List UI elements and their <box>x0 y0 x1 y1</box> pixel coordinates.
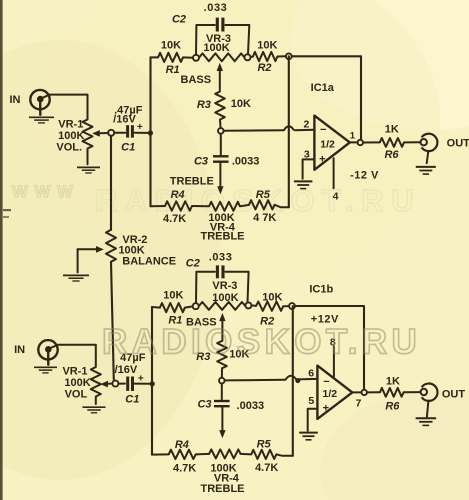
svg-text:TREBLE: TREBLE <box>201 483 245 495</box>
svg-text:R3: R3 <box>197 99 211 111</box>
svg-text:BASS: BASS <box>181 74 212 86</box>
svg-text:/16V: /16V <box>113 113 136 125</box>
svg-text:C3: C3 <box>194 156 208 168</box>
svg-text:R1: R1 <box>166 64 180 76</box>
svg-text:−: − <box>320 124 326 136</box>
svg-text:RADIOSKOT.RU: RADIOSKOT.RU <box>102 323 421 362</box>
svg-text:10K: 10K <box>163 290 183 302</box>
svg-text:VR-1: VR-1 <box>62 366 87 378</box>
svg-text:VOL.: VOL. <box>56 141 82 153</box>
svg-text:−: − <box>323 376 329 388</box>
svg-text:IN: IN <box>10 94 21 106</box>
svg-text:4.7K: 4.7K <box>173 463 196 475</box>
svg-text:100K: 100K <box>58 130 84 142</box>
svg-text:C1: C1 <box>121 141 135 153</box>
svg-text:.033: .033 <box>209 251 233 263</box>
svg-text:1: 1 <box>350 131 356 142</box>
svg-text:WWW: WWW <box>12 183 80 201</box>
svg-text:OUT: OUT <box>442 389 466 401</box>
svg-text:BALANCE: BALANCE <box>122 256 176 268</box>
svg-text:.0033: .0033 <box>232 155 260 167</box>
svg-text:1/2: 1/2 <box>320 138 335 150</box>
svg-text:1/2: 1/2 <box>322 388 337 400</box>
svg-text:+: + <box>323 402 329 414</box>
svg-text:IN: IN <box>14 344 25 356</box>
svg-text:VR-1: VR-1 <box>58 119 83 131</box>
svg-text:VR-3: VR-3 <box>212 280 237 292</box>
svg-text:100K: 100K <box>203 42 229 54</box>
svg-text:6: 6 <box>308 368 314 380</box>
svg-text:.033: .033 <box>204 2 228 14</box>
svg-text:7: 7 <box>355 398 361 410</box>
svg-text:5: 5 <box>308 395 314 407</box>
svg-text:R6: R6 <box>385 400 400 412</box>
svg-text:R6: R6 <box>384 149 399 161</box>
svg-text:C2: C2 <box>172 14 186 26</box>
svg-text:.0033: .0033 <box>237 400 265 412</box>
svg-text:TREBLE: TREBLE <box>201 231 245 243</box>
svg-text:10K: 10K <box>231 98 251 110</box>
svg-text:IC1a: IC1a <box>311 82 335 94</box>
svg-text:C2: C2 <box>186 257 200 269</box>
svg-text:10K: 10K <box>257 40 277 52</box>
svg-text:R4: R4 <box>175 439 189 451</box>
svg-text:-12 V: -12 V <box>350 169 379 181</box>
svg-text:100K: 100K <box>212 292 238 304</box>
svg-text:/16V: /16V <box>115 364 138 376</box>
svg-text:IC1b: IC1b <box>309 283 333 295</box>
svg-text:1K: 1K <box>385 123 399 135</box>
svg-text:C3: C3 <box>197 399 211 411</box>
svg-text:+: + <box>319 154 325 166</box>
svg-text:VOL: VOL <box>65 388 88 400</box>
svg-text:R5: R5 <box>257 438 272 450</box>
svg-text:+: + <box>137 122 143 133</box>
svg-text:10K: 10K <box>262 291 282 303</box>
svg-text:100K: 100K <box>64 377 90 389</box>
svg-text:2: 2 <box>303 118 309 130</box>
svg-text:1K: 1K <box>386 375 400 387</box>
svg-text:OUT: OUT <box>447 137 469 149</box>
svg-text:4.7K: 4.7K <box>255 462 278 474</box>
svg-text:10K: 10K <box>161 40 181 52</box>
svg-text:C1: C1 <box>125 393 139 405</box>
svg-text:RADIOSKOT.RU: RADIOSKOT.RU <box>95 183 421 218</box>
svg-text:R2: R2 <box>257 62 271 74</box>
